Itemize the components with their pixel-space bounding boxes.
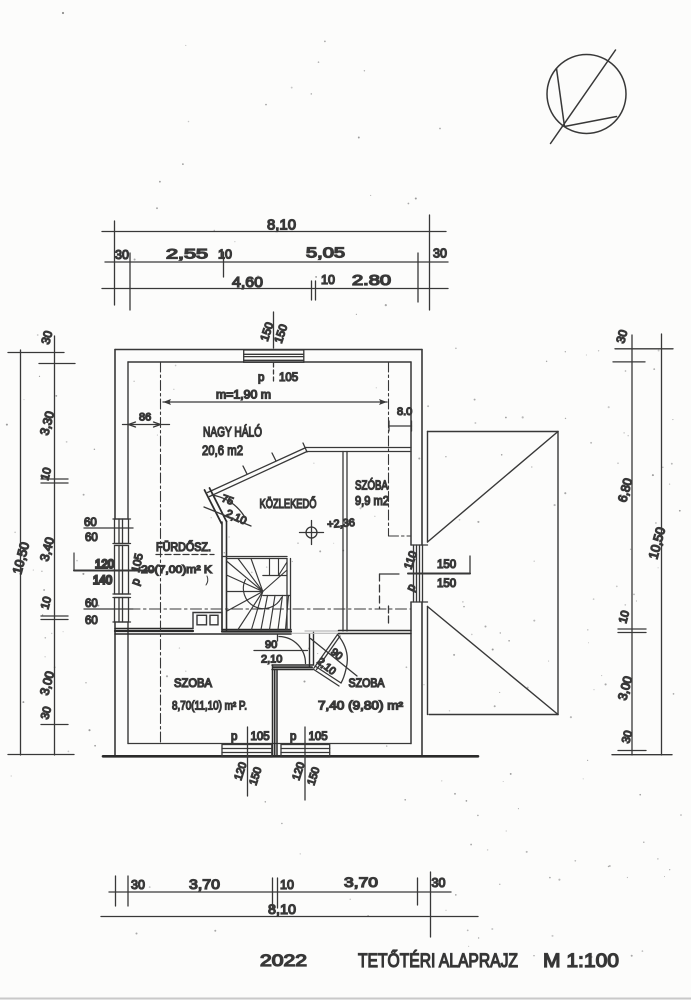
label NAGY HALO <box>202 425 262 459</box>
label FURDOSZ <box>141 540 214 585</box>
svg-text:120: 120 <box>95 559 114 571</box>
knee line dash-dot horizontal <box>129 608 411 610</box>
knee line dash-dot right vertical <box>389 362 412 536</box>
label SZOBA right <box>318 678 403 713</box>
svg-text:2.80: 2.80 <box>352 273 391 289</box>
svg-text:30: 30 <box>115 248 129 262</box>
svg-text:+2,36: +2,36 <box>327 517 356 531</box>
electrical circle symbol <box>300 521 324 545</box>
svg-text:10: 10 <box>218 248 232 262</box>
svg-text:2022: 2022 <box>260 952 307 970</box>
svg-text:NAGY HÁLÓ: NAGY HÁLÓ <box>203 425 262 440</box>
svg-text:p: p <box>258 372 264 384</box>
svg-text:150: 150 <box>437 559 456 571</box>
svg-text:10,50: 10,50 <box>645 525 668 560</box>
svg-text:KÖZLEKEDŐ: KÖZLEKEDŐ <box>260 496 317 511</box>
svg-text:60: 60 <box>84 517 97 529</box>
bottom dimension chain 30/3,70/10/3,70/30 <box>109 872 451 937</box>
outer wall bottom eave line <box>103 755 478 758</box>
right wall dim 150/150 <box>403 550 470 594</box>
svg-text:10,50: 10,50 <box>9 540 32 575</box>
svg-text:M 1:100: M 1:100 <box>543 950 619 972</box>
outer wall left <box>114 350 116 757</box>
svg-text:p: p <box>130 577 143 587</box>
inner wall left <box>127 362 129 744</box>
label SZOBA 9,9 <box>355 478 389 509</box>
m=1,90m arrow line <box>163 390 387 406</box>
bottom window left 150 <box>222 745 272 758</box>
svg-text:140: 140 <box>93 575 112 587</box>
svg-text:p: p <box>231 731 237 743</box>
svg-text:3,70: 3,70 <box>189 876 220 892</box>
svg-text:TETŐTÉRI ALAPRAJZ: TETŐTÉRI ALAPRAJZ <box>358 949 518 972</box>
svg-text:105: 105 <box>309 731 328 743</box>
north symbol circle <box>547 50 626 144</box>
right dimension chain 10,50 <box>612 328 673 755</box>
top dimension chain line 8,10 <box>102 215 446 310</box>
svg-text:5,05: 5,05 <box>306 246 345 262</box>
outer wall right <box>421 350 423 757</box>
left wall dim 60/60 lower <box>84 598 133 627</box>
bottom window left dim p 105 <box>231 727 270 796</box>
top dimension chain line 30/2,55/10/5,05/30 <box>105 246 448 311</box>
outer wall top <box>115 349 422 351</box>
svg-text:30: 30 <box>39 705 54 720</box>
svg-text:105: 105 <box>251 731 270 743</box>
svg-text:30: 30 <box>433 247 447 261</box>
dim 86 <box>123 412 170 428</box>
knee wall diagonal double line <box>208 443 412 497</box>
bathroom east wall <box>222 521 227 630</box>
svg-text:86: 86 <box>139 412 151 424</box>
window left wall lower 60 <box>113 598 131 623</box>
room divider wall vertical <box>273 665 278 756</box>
roof outline <box>428 432 559 715</box>
svg-text:60: 60 <box>85 615 98 627</box>
svg-text:m=1,90 m: m=1,90 m <box>216 390 271 402</box>
bottom dimension chain 8,10 <box>101 901 478 917</box>
svg-text:2,10: 2,10 <box>224 508 248 528</box>
svg-text:75: 75 <box>220 493 235 508</box>
stair box <box>222 557 291 630</box>
bottom page edge line <box>0 998 691 1000</box>
svg-text:8.0: 8.0 <box>397 406 412 418</box>
svg-text:2,10: 2,10 <box>261 654 282 666</box>
szoba2 north wall <box>339 631 412 634</box>
svg-text:8,70(11,10) m² P.: 8,70(11,10) m² P. <box>172 701 247 713</box>
chimney block with two flues <box>193 613 222 629</box>
svg-text:60: 60 <box>85 532 98 544</box>
svg-text:90: 90 <box>265 639 277 651</box>
svg-text:SZÓBA: SZÓBA <box>355 478 389 493</box>
bathroom door arc 75 <box>204 493 251 528</box>
window right wall 110 <box>411 545 428 602</box>
svg-text:105: 105 <box>279 372 298 384</box>
inner wall right <box>410 362 412 744</box>
dim 8.0 right <box>389 406 412 431</box>
right door wedge 90 <box>311 635 358 687</box>
bathroom south wall with chimney <box>115 629 291 635</box>
svg-text:2,55: 2,55 <box>166 246 208 262</box>
svg-text:8,10: 8,10 <box>267 218 296 234</box>
title block <box>260 949 619 972</box>
svg-text:7,40 (9,80) m²: 7,40 (9,80) m² <box>318 701 403 713</box>
svg-text:8,10: 8,10 <box>268 901 296 917</box>
svg-text:20(7,00)m² K: 20(7,00)m² K <box>141 564 213 576</box>
knee line dash-dot left vertical <box>160 362 162 742</box>
top dimension chain line 4,60/10/2,80 <box>102 273 448 300</box>
svg-text:110: 110 <box>403 550 421 571</box>
svg-text:30: 30 <box>432 876 446 890</box>
window top wall 105 <box>244 350 304 362</box>
left wall dim 120/140 <box>74 553 152 587</box>
svg-text:150: 150 <box>437 578 456 590</box>
svg-text:10: 10 <box>280 878 294 892</box>
bottom window right dim p 105 <box>290 727 328 800</box>
svg-text:FÜRDŐSZ.: FÜRDŐSZ. <box>156 540 211 554</box>
left dimension chain 10,50 <box>8 329 75 755</box>
faint wall above left door <box>292 631 338 633</box>
bottom window right 150 <box>281 745 330 758</box>
svg-text:SZOBA: SZOBA <box>174 678 212 690</box>
inner wall top <box>128 361 411 363</box>
svg-text:SZOBA: SZOBA <box>349 678 385 690</box>
svg-text:10: 10 <box>39 595 54 610</box>
bathroom angled wall <box>205 488 227 524</box>
left door 90 arc <box>254 635 308 666</box>
svg-text:30: 30 <box>613 328 630 345</box>
window left wall middle 140 <box>113 546 131 595</box>
window left wall upper 60 <box>113 519 131 544</box>
svg-text:150: 150 <box>305 766 322 787</box>
level +2,36 <box>327 517 356 531</box>
svg-text:10: 10 <box>617 609 632 624</box>
svg-text:30: 30 <box>131 878 145 892</box>
inner wall bottom <box>128 743 411 745</box>
svg-text:150: 150 <box>247 766 264 787</box>
left wall label p 105 <box>130 552 146 587</box>
svg-text:3,70: 3,70 <box>344 874 378 890</box>
svg-text:30: 30 <box>38 329 55 346</box>
wall kozlekedo/szoba vertical <box>343 452 347 632</box>
nook wall vertical <box>310 633 314 668</box>
stair winder treads <box>227 559 291 630</box>
window niche line right <box>380 574 400 623</box>
svg-text:4,60: 4,60 <box>232 274 263 291</box>
left wall dim 60/60 upper <box>84 517 133 544</box>
label KOZLEKEDO <box>260 496 317 511</box>
top window dim line 150/150 <box>258 312 298 384</box>
svg-text:30: 30 <box>620 729 635 744</box>
svg-text:20,6 m2: 20,6 m2 <box>202 443 243 458</box>
svg-text:9,9 m2: 9,9 m2 <box>355 494 389 508</box>
svg-text:10: 10 <box>321 273 335 287</box>
svg-text:p: p <box>290 731 296 743</box>
svg-text:60: 60 <box>85 598 98 610</box>
nook wall horizontal <box>272 665 313 670</box>
label SZOBA left <box>172 678 247 713</box>
